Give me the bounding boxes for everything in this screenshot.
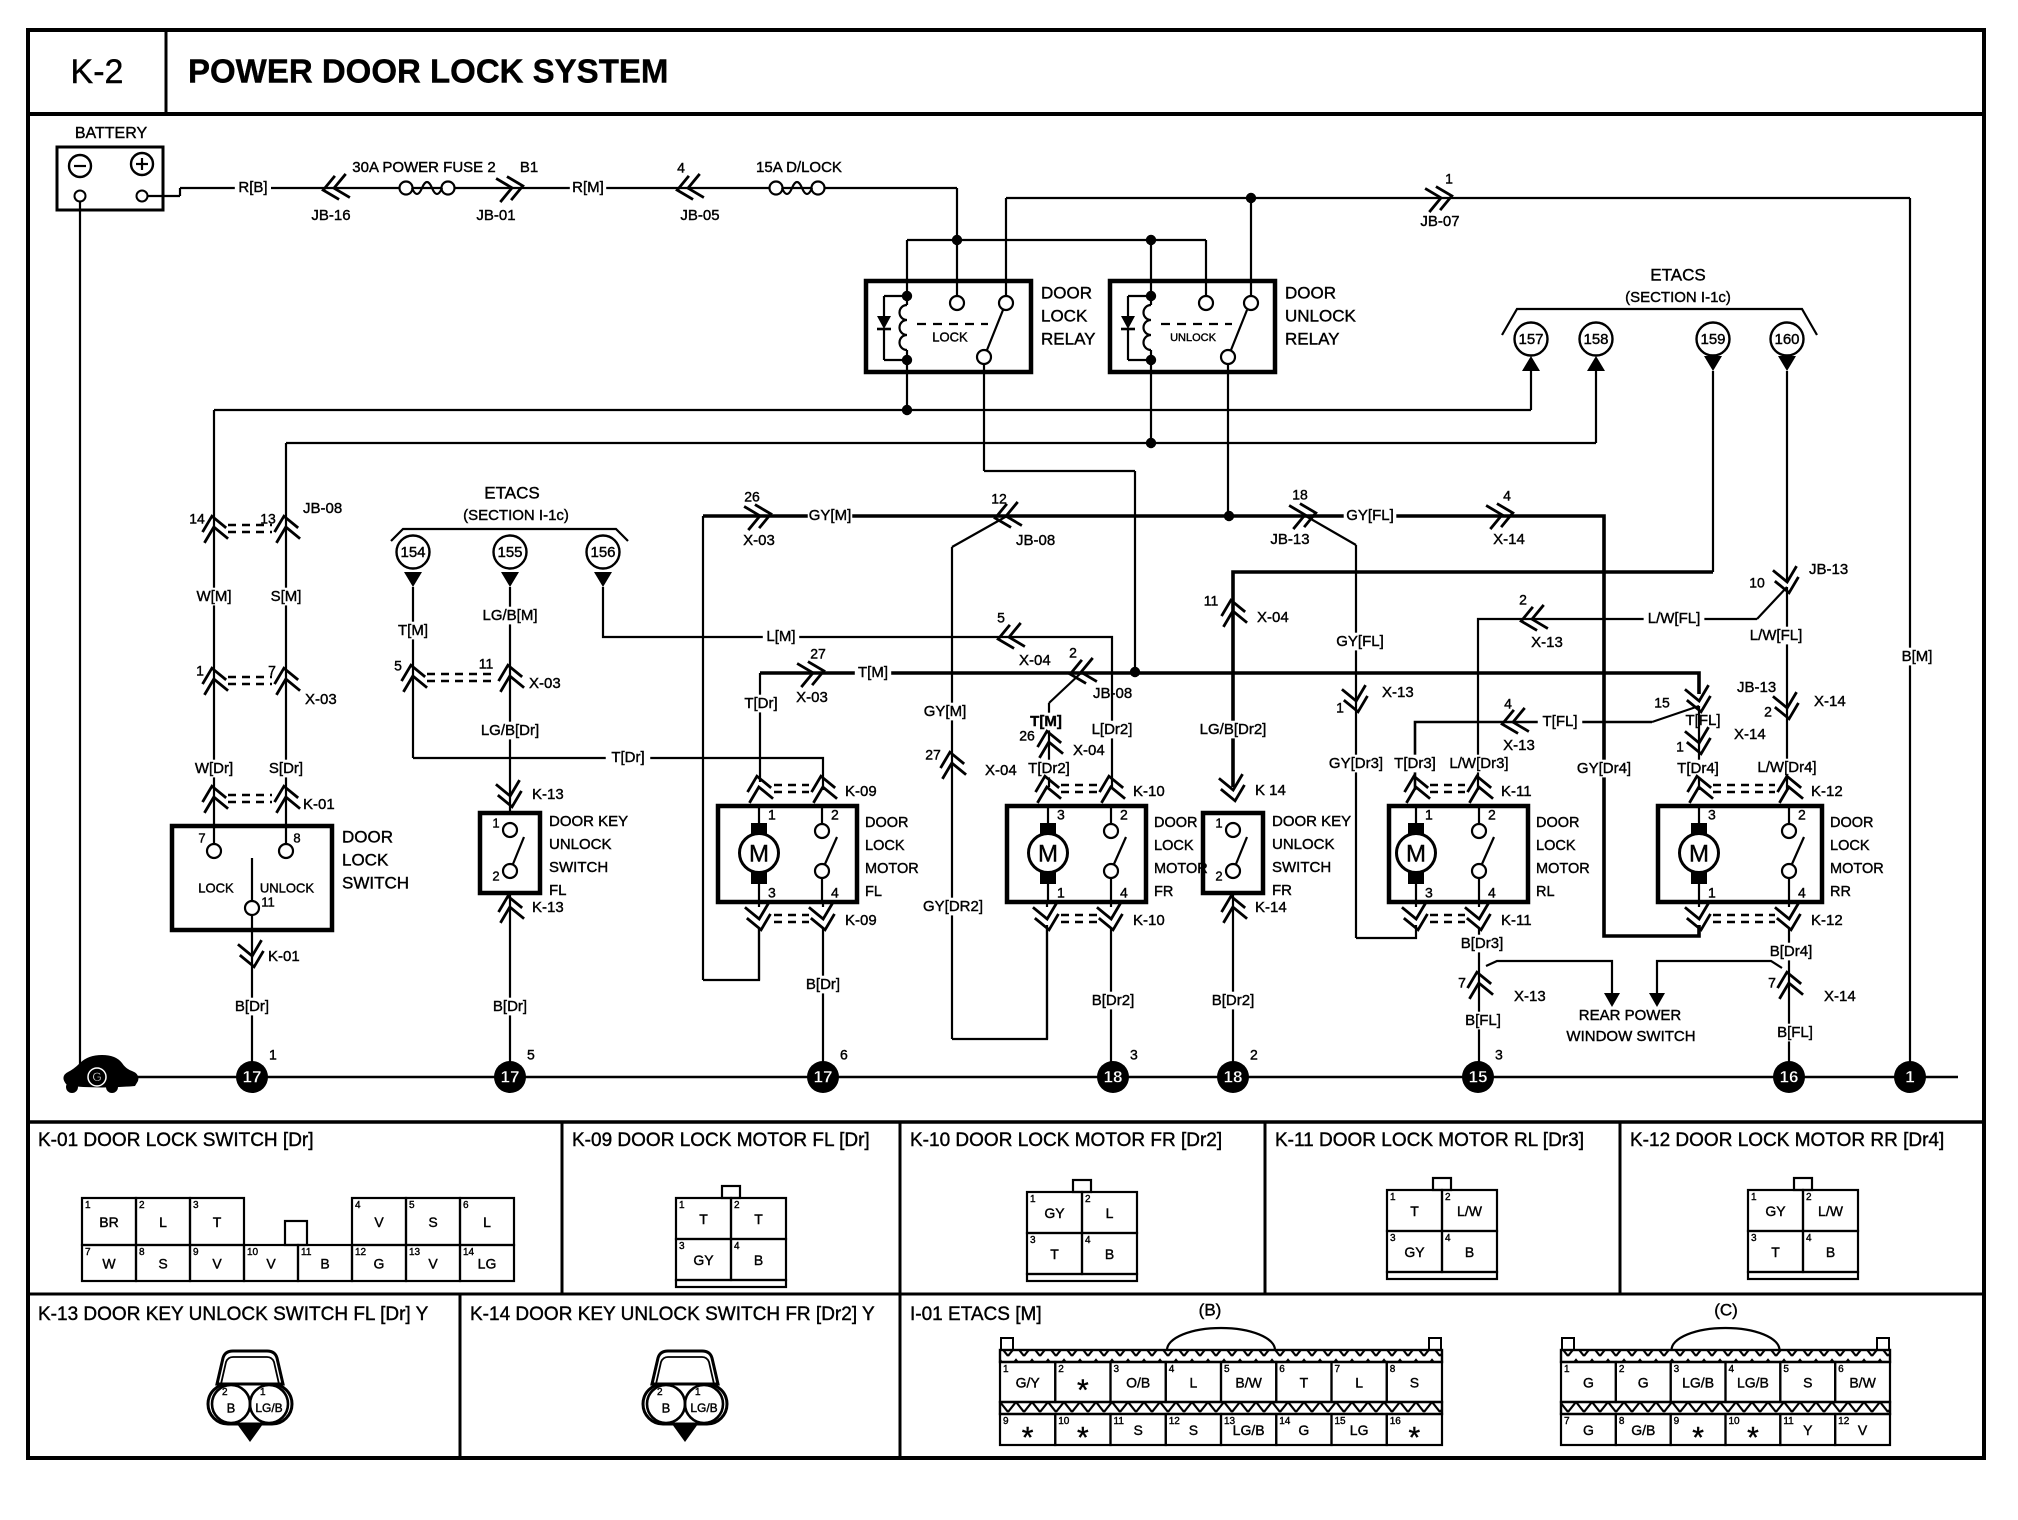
- motor DOOR LOCK MOTOR FR switch: [1104, 824, 1118, 838]
- svg-text:M: M: [749, 840, 769, 867]
- svg-text:ETACS: ETACS: [1650, 265, 1705, 284]
- svg-text:11: 11: [301, 1247, 312, 1258]
- wire coil to W[M] line: [906, 360, 908, 410]
- svg-text:Y: Y: [1803, 1422, 1813, 1438]
- svg-text:JB-07: JB-07: [1420, 213, 1459, 230]
- svg-text:2: 2: [1806, 1192, 1812, 1203]
- svg-text:X-14: X-14: [1824, 988, 1856, 1005]
- wire JB-13 diagonal: [1652, 706, 1699, 722]
- svg-text:2: 2: [1488, 807, 1496, 823]
- svg-text:3: 3: [1030, 1235, 1036, 1246]
- motor DOOR LOCK MOTOR RR box: [1658, 806, 1822, 902]
- motor DOOR LOCK MOTOR FL switch: [815, 824, 829, 838]
- svg-text:1: 1: [1030, 1194, 1036, 1205]
- svg-text:3: 3: [1057, 807, 1065, 823]
- connector 1 / JB-07: [1425, 184, 1454, 212]
- connector K-12 upper right: [1775, 774, 1803, 803]
- wire fuse down to lock relay common: [956, 188, 958, 303]
- wire 154 T[M] down: [412, 587, 414, 758]
- svg-text:X-13: X-13: [1514, 988, 1546, 1005]
- ETACS pin 160: [1771, 323, 1804, 356]
- ground node 1 at x=1910: [1894, 1061, 1926, 1093]
- svg-text:L/W: L/W: [1457, 1203, 1483, 1219]
- ground node 18 at x=1233: [1217, 1061, 1249, 1093]
- svg-text:1: 1: [1564, 1364, 1570, 1375]
- svg-text:LG/B[Dr2]: LG/B[Dr2]: [1200, 721, 1267, 738]
- svg-text:G: G: [1298, 1422, 1309, 1438]
- svg-text:2: 2: [1058, 1364, 1064, 1375]
- svg-text:27: 27: [925, 747, 941, 763]
- svg-text:7: 7: [268, 663, 276, 679]
- connector 5 / X-03: [399, 663, 427, 692]
- svg-text:12: 12: [991, 491, 1007, 507]
- svg-text:LG/B: LG/B: [1737, 1375, 1769, 1391]
- connector K-10 lower left: [1033, 903, 1061, 932]
- svg-text:B[Dr4]: B[Dr4]: [1770, 943, 1813, 960]
- svg-text:L: L: [1189, 1375, 1197, 1391]
- svg-text:155: 155: [497, 544, 522, 561]
- svg-text:1: 1: [1336, 700, 1344, 716]
- connector 1 / X-14: [1685, 727, 1713, 756]
- svg-text:L[M]: L[M]: [766, 628, 795, 645]
- svg-text:X-14: X-14: [1814, 693, 1846, 710]
- svg-text:MOTOR: MOTOR: [1536, 861, 1590, 877]
- svg-text:LOCK: LOCK: [932, 329, 968, 344]
- svg-text:GY: GY: [1044, 1205, 1065, 1221]
- svg-text:*: *: [1692, 1421, 1704, 1454]
- svg-text:B: B: [1105, 1246, 1114, 1262]
- svg-text:GY[FL]: GY[FL]: [1346, 507, 1394, 524]
- wire T[FL]/T[Dr4] down to RR motor pin3: [1698, 706, 1700, 790]
- svg-text:X-13: X-13: [1531, 634, 1563, 651]
- svg-text:DOOR: DOOR: [342, 827, 393, 846]
- svg-text:W: W: [102, 1256, 116, 1272]
- svg-text:B[Dr2]: B[Dr2]: [1092, 992, 1135, 1009]
- svg-text:3: 3: [1495, 1047, 1503, 1063]
- svg-text:3: 3: [1708, 807, 1716, 823]
- svg-text:V: V: [1858, 1422, 1868, 1438]
- svg-text:GY[M]: GY[M]: [809, 507, 852, 524]
- svg-text:B/W: B/W: [1235, 1375, 1262, 1391]
- svg-text:18: 18: [1292, 487, 1308, 503]
- motor DOOR LOCK MOTOR RL M: [1408, 823, 1424, 835]
- svg-text:2: 2: [831, 807, 839, 823]
- wire to lock relay NO contact: [1005, 198, 1007, 303]
- svg-text:T[M]: T[M]: [1030, 713, 1062, 730]
- wire key switch FR pin2 to ground: [1232, 893, 1234, 1077]
- svg-text:SWITCH: SWITCH: [1272, 859, 1331, 876]
- svg-text:4: 4: [1445, 1233, 1451, 1244]
- svg-text:K-14 DOOR KEY UNLOCK SWITCH FR: K-14 DOOR KEY UNLOCK SWITCH FR [Dr2] Y: [470, 1304, 875, 1325]
- svg-text:FL: FL: [549, 882, 567, 899]
- svg-text:12: 12: [1838, 1416, 1850, 1427]
- wire 160 down: [1786, 371, 1788, 581]
- svg-text:LG/B[Dr]: LG/B[Dr]: [481, 722, 539, 739]
- wire FR pin1 down: [1046, 929, 1048, 1039]
- svg-text:*: *: [1077, 1374, 1089, 1407]
- label R[M]: [570, 179, 606, 197]
- svg-text:158: 158: [1583, 331, 1608, 348]
- wire JB-07 line: [1006, 197, 1910, 199]
- svg-text:B/W: B/W: [1849, 1375, 1876, 1391]
- svg-text:K-09 DOOR LOCK MOTOR FL [Dr]: K-09 DOOR LOCK MOTOR FL [Dr]: [572, 1130, 870, 1151]
- svg-text:18: 18: [1104, 1067, 1123, 1086]
- svg-text:G: G: [92, 1070, 101, 1084]
- svg-text:L/W[Dr4]: L/W[Dr4]: [1757, 759, 1816, 776]
- svg-text:(C): (C): [1714, 1300, 1738, 1319]
- svg-text:T: T: [754, 1211, 763, 1227]
- svg-text:S[M]: S[M]: [271, 588, 302, 605]
- svg-text:3: 3: [1751, 1233, 1757, 1244]
- svg-text:L: L: [1106, 1205, 1114, 1221]
- svg-text:UNLOCK: UNLOCK: [1170, 332, 1217, 344]
- motor DOOR LOCK MOTOR RR M: [1691, 823, 1707, 835]
- svg-text:O/B: O/B: [1126, 1375, 1150, 1391]
- svg-text:LOCK: LOCK: [198, 880, 234, 895]
- svg-text:L/W[FL]: L/W[FL]: [1750, 627, 1803, 644]
- svg-text:V: V: [428, 1256, 438, 1272]
- svg-text:14: 14: [1279, 1416, 1291, 1427]
- wire feed to relays: [271, 187, 957, 189]
- wire GY[Dr] down: [702, 516, 704, 980]
- connector K-10 upper right: [1097, 774, 1125, 803]
- svg-text:UNLOCK: UNLOCK: [1285, 306, 1357, 325]
- svg-text:L/W: L/W: [1818, 1203, 1844, 1219]
- svg-text:T[M]: T[M]: [858, 664, 888, 681]
- svg-text:10: 10: [1058, 1416, 1070, 1427]
- svg-text:V: V: [374, 1214, 384, 1230]
- wire GY[M]/GY[FL] line: [703, 516, 1699, 936]
- svg-text:2: 2: [1085, 1194, 1091, 1205]
- svg-text:(SECTION I-1c): (SECTION I-1c): [463, 507, 569, 524]
- svg-text:4: 4: [1503, 488, 1511, 504]
- ETACS bracket left: [391, 529, 628, 541]
- svg-text:GY[Dr3]: GY[Dr3]: [1329, 755, 1383, 772]
- connector K-01 pin11: [238, 940, 266, 969]
- wire B[M] down right side: [1909, 198, 1911, 1077]
- svg-text:T: T: [1771, 1244, 1780, 1260]
- svg-text:15: 15: [1654, 695, 1670, 711]
- connector K-11 lower left: [1402, 903, 1430, 932]
- svg-text:S: S: [1189, 1422, 1198, 1438]
- wire T[Dr] vertical to FL motor pin1: [759, 673, 761, 782]
- connector K 14 upper: [1219, 774, 1247, 803]
- svg-text:GY[DR2]: GY[DR2]: [923, 898, 983, 915]
- svg-text:B[Dr2]: B[Dr2]: [1212, 992, 1255, 1009]
- svg-text:1: 1: [1751, 1192, 1757, 1203]
- svg-text:MOTOR: MOTOR: [1154, 861, 1208, 877]
- svg-text:K-01 DOOR LOCK SWITCH [Dr]: K-01 DOOR LOCK SWITCH [Dr]: [38, 1130, 314, 1151]
- connector 11 / X-03: [496, 663, 524, 692]
- svg-text:9: 9: [1674, 1416, 1680, 1427]
- svg-text:11: 11: [261, 894, 275, 909]
- connector K-10 pin diagram: [1073, 1180, 1091, 1192]
- svg-text:2: 2: [1798, 807, 1806, 823]
- wire FL pin3 stub: [758, 902, 760, 907]
- svg-text:5: 5: [1783, 1364, 1789, 1375]
- wire lock relay output horizontal: [984, 470, 1135, 472]
- svg-text:1: 1: [768, 807, 776, 823]
- wire GY[Dr] to FL motor pin3: [703, 929, 759, 980]
- svg-text:G/Y: G/Y: [1016, 1375, 1041, 1391]
- svg-text:WINDOW SWITCH: WINDOW SWITCH: [1566, 1028, 1695, 1045]
- svg-text:X-04: X-04: [1073, 742, 1105, 759]
- svg-text:X-03: X-03: [305, 691, 337, 708]
- svg-text:REAR POWER: REAR POWER: [1579, 1007, 1682, 1024]
- connector K-01 pin7: [200, 784, 228, 813]
- relay contacts: [1199, 296, 1213, 310]
- svg-text:K-2: K-2: [71, 53, 124, 91]
- svg-text:S: S: [1803, 1375, 1812, 1391]
- svg-text:M: M: [1689, 840, 1709, 867]
- svg-text:L: L: [1355, 1375, 1363, 1391]
- relay contacts: [950, 296, 964, 310]
- svg-text:K-09: K-09: [845, 912, 877, 929]
- svg-text:LOCK: LOCK: [1041, 306, 1088, 325]
- svg-text:B: B: [754, 1252, 763, 1268]
- svg-text:11: 11: [479, 656, 494, 672]
- connector B1 / JB-01: [496, 174, 525, 202]
- svg-text:6: 6: [1279, 1364, 1285, 1375]
- connector K-14 pin diagram: [652, 1351, 718, 1384]
- wire key switch FL pin2 to ground: [509, 893, 511, 1077]
- motor DOOR LOCK MOTOR FL M: [751, 823, 767, 835]
- wire battery positive: [147, 195, 180, 197]
- svg-text:*: *: [1747, 1421, 1759, 1454]
- svg-text:K-14: K-14: [1255, 899, 1287, 916]
- connector 5 / X-04: [996, 623, 1025, 651]
- svg-text:159: 159: [1700, 331, 1725, 348]
- title block divider: [165, 30, 168, 114]
- svg-text:K-12: K-12: [1811, 783, 1843, 800]
- svg-text:K-13: K-13: [532, 899, 564, 916]
- svg-text:4: 4: [1120, 885, 1128, 901]
- svg-text:14: 14: [463, 1247, 475, 1258]
- svg-text:ETACS: ETACS: [484, 483, 539, 502]
- svg-text:LOCK: LOCK: [1830, 838, 1870, 854]
- connector K-12 pin diagram: [1794, 1178, 1812, 1190]
- svg-text:160: 160: [1774, 331, 1799, 348]
- wire GY[DR2] to FR motor pin1: [952, 925, 1047, 1039]
- arrow into 158: [1587, 356, 1605, 371]
- svg-text:I-01 ETACS [M]: I-01 ETACS [M]: [910, 1304, 1042, 1325]
- wire JB-13 diagonal: [1757, 587, 1787, 619]
- svg-text:2: 2: [1120, 807, 1128, 823]
- svg-text:16: 16: [1780, 1067, 1799, 1086]
- svg-text:GY[M]: GY[M]: [924, 703, 967, 720]
- svg-text:7: 7: [85, 1247, 91, 1258]
- svg-text:T[Dr]: T[Dr]: [611, 749, 644, 766]
- svg-text:L[Dr2]: L[Dr2]: [1092, 721, 1133, 738]
- svg-text:X-03: X-03: [743, 532, 775, 549]
- ground node 15 at x=1478: [1462, 1061, 1494, 1093]
- junction: [1246, 193, 1256, 203]
- ETACS pin 157: [1515, 323, 1548, 356]
- svg-text:T[Dr4]: T[Dr4]: [1677, 760, 1719, 777]
- svg-text:1: 1: [260, 1387, 266, 1398]
- connector 27 / X-04: [938, 750, 966, 779]
- svg-text:GY: GY: [1404, 1244, 1425, 1260]
- svg-text:2: 2: [222, 1387, 228, 1398]
- svg-text:26: 26: [1019, 728, 1035, 744]
- svg-text:G/B: G/B: [1631, 1422, 1655, 1438]
- svg-text:6: 6: [840, 1047, 848, 1063]
- connector 10 / JB-13: [1773, 566, 1801, 595]
- svg-text:4: 4: [355, 1200, 361, 1211]
- wire S[M]/S[Dr] down to switch pin8: [285, 443, 287, 845]
- svg-text:18: 18: [1224, 1067, 1243, 1086]
- arrow out of 155: [501, 572, 519, 587]
- svg-text:W[Dr]: W[Dr]: [195, 760, 233, 777]
- ETACS pin 155: [494, 536, 527, 569]
- label B[Dr]: [230, 998, 275, 1016]
- svg-text:FR: FR: [1272, 882, 1292, 899]
- svg-text:X-04: X-04: [985, 762, 1017, 779]
- connector K-10 lower right: [1097, 903, 1125, 932]
- svg-text:DOOR: DOOR: [1536, 815, 1580, 831]
- svg-text:5: 5: [394, 658, 402, 674]
- svg-text:LG: LG: [1350, 1422, 1369, 1438]
- svg-text:K 14: K 14: [1255, 782, 1286, 799]
- svg-text:1: 1: [1708, 885, 1716, 901]
- switch DOOR KEY UNLOCK SWITCH FR: [1203, 813, 1263, 893]
- ground node 17 at x=252: [236, 1061, 268, 1093]
- wire switch pin11 to ground: [251, 915, 253, 1077]
- wire 159 LG/B line to FR key switch: [1233, 572, 1713, 787]
- svg-text:UNLOCK: UNLOCK: [260, 880, 315, 895]
- motor DOOR LOCK MOTOR FR M: [1040, 823, 1056, 835]
- svg-text:4: 4: [1504, 696, 1512, 712]
- wire L/W[FL]/L/W[Dr4] down to RR motor pin2: [1786, 587, 1788, 790]
- diode: [1127, 296, 1129, 316]
- svg-text:K-13: K-13: [532, 786, 564, 803]
- svg-text:B: B: [1826, 1244, 1835, 1260]
- arrow out of 154: [404, 572, 422, 587]
- connector K-09 lower right: [809, 903, 837, 932]
- svg-text:LOCK: LOCK: [865, 838, 905, 854]
- fuse 15A D/LOCK: [770, 182, 783, 195]
- svg-text:R[B]: R[B]: [238, 179, 267, 196]
- motor DOOR LOCK MOTOR FR box: [1007, 806, 1146, 902]
- svg-text:LG/B[M]: LG/B[M]: [482, 607, 537, 624]
- svg-text:K-11: K-11: [1501, 783, 1532, 800]
- connector K-01 pin diagram: [82, 1198, 136, 1245]
- svg-text:L: L: [483, 1214, 491, 1230]
- svg-text:LG/B: LG/B: [690, 1401, 717, 1415]
- svg-text:K-09: K-09: [845, 783, 877, 800]
- bottom connector table frame: [28, 1120, 1984, 1124]
- svg-text:12: 12: [1169, 1416, 1181, 1427]
- svg-text:JB-16: JB-16: [311, 207, 350, 224]
- wire to unlock relay common: [1205, 240, 1207, 303]
- ground node 18 at x=1113: [1097, 1061, 1129, 1093]
- ETACS pin 156: [587, 536, 620, 569]
- connector 27 / X-03: [797, 659, 826, 687]
- connector K-14 lower: [1219, 894, 1247, 923]
- svg-text:M: M: [1038, 840, 1058, 867]
- connector 7 / X-13: [1465, 970, 1493, 999]
- svg-text:LOCK: LOCK: [1154, 838, 1194, 854]
- svg-text:8: 8: [139, 1247, 145, 1258]
- svg-text:B[Dr]: B[Dr]: [493, 998, 527, 1015]
- svg-text:X-04: X-04: [1019, 652, 1051, 669]
- svg-text:4: 4: [1488, 885, 1496, 901]
- svg-text:6: 6: [1838, 1364, 1844, 1375]
- svg-text:L/W[FL]: L/W[FL]: [1648, 610, 1701, 627]
- wire L[M] from 156 to FR motor pin2: [603, 587, 1112, 787]
- connector K-11 upper right: [1465, 774, 1493, 803]
- connector K-13 pin diagram: [217, 1351, 283, 1384]
- wire coil to S[M] line: [1150, 360, 1152, 443]
- svg-text:JB-13: JB-13: [1270, 531, 1309, 548]
- ground node 16 at x=1789: [1773, 1061, 1805, 1093]
- connector 2 / JB-08: [1068, 658, 1097, 686]
- svg-text:1: 1: [1390, 1192, 1396, 1203]
- svg-text:1: 1: [1215, 815, 1222, 830]
- wire S[M] unlock line y443: [286, 442, 1596, 444]
- svg-text:3: 3: [193, 1200, 199, 1211]
- connector K-10 upper left: [1033, 774, 1061, 803]
- svg-text:DOOR: DOOR: [1154, 815, 1198, 831]
- svg-text:JB-01: JB-01: [476, 207, 515, 224]
- wire L/W[FL] to RL motor pin2: [1478, 619, 1757, 790]
- branch to rear power window switch (right arrow): [1657, 961, 1782, 995]
- svg-text:K-12 DOOR LOCK MOTOR RR [Dr4]: K-12 DOOR LOCK MOTOR RR [Dr4]: [1630, 1130, 1944, 1151]
- wire W[M] lock line y410: [214, 409, 1531, 411]
- svg-text:11: 11: [1204, 593, 1219, 609]
- svg-text:T[Dr2]: T[Dr2]: [1028, 760, 1070, 777]
- connector 26 / X-04: [1035, 729, 1063, 758]
- switch DOOR KEY UNLOCK SWITCH FL: [480, 813, 540, 893]
- ground node 17 at x=823: [807, 1061, 839, 1093]
- label B[M]: [1899, 648, 1935, 666]
- motor DOOR LOCK MOTOR RL switch: [1472, 824, 1486, 838]
- svg-text:156: 156: [590, 544, 615, 561]
- connector 18 / JB-13: [1289, 501, 1318, 529]
- svg-text:4: 4: [1169, 1364, 1175, 1375]
- svg-text:DOOR: DOOR: [1830, 815, 1874, 831]
- svg-text:9: 9: [1003, 1416, 1009, 1427]
- connector 7 / X-03: [272, 666, 300, 695]
- switch DOOR LOCK SWITCH: [172, 826, 332, 930]
- svg-text:15: 15: [1335, 1416, 1347, 1427]
- connector K-11 lower right: [1465, 903, 1493, 932]
- svg-text:*: *: [1077, 1421, 1089, 1454]
- connector K-12 upper left: [1685, 774, 1713, 803]
- connector K-09 upper left: [745, 774, 773, 803]
- svg-text:SWITCH: SWITCH: [342, 873, 409, 892]
- wire W[M]/W[Dr] down to switch pin7: [213, 410, 215, 845]
- svg-text:17: 17: [814, 1067, 833, 1086]
- svg-text:7: 7: [1768, 975, 1776, 991]
- svg-text:1: 1: [85, 1200, 91, 1211]
- connector 1 / X-13: [1342, 685, 1370, 714]
- svg-text:2: 2: [734, 1200, 740, 1211]
- svg-text:2: 2: [1069, 645, 1077, 661]
- svg-text:9: 9: [193, 1247, 199, 1258]
- svg-text:T[Dr]: T[Dr]: [744, 695, 777, 712]
- svg-text:X-03: X-03: [796, 689, 828, 706]
- svg-text:2: 2: [1445, 1192, 1451, 1203]
- svg-text:2: 2: [139, 1200, 145, 1211]
- wire relay coil bus: [907, 239, 1206, 241]
- connector JB-16: [321, 174, 350, 202]
- svg-text:12: 12: [355, 1247, 367, 1258]
- motor DOOR LOCK MOTOR FL box: [718, 806, 857, 902]
- svg-text:BR: BR: [99, 1214, 118, 1230]
- connector 14 / JB-08: [200, 514, 228, 543]
- svg-text:GY: GY: [693, 1252, 714, 1268]
